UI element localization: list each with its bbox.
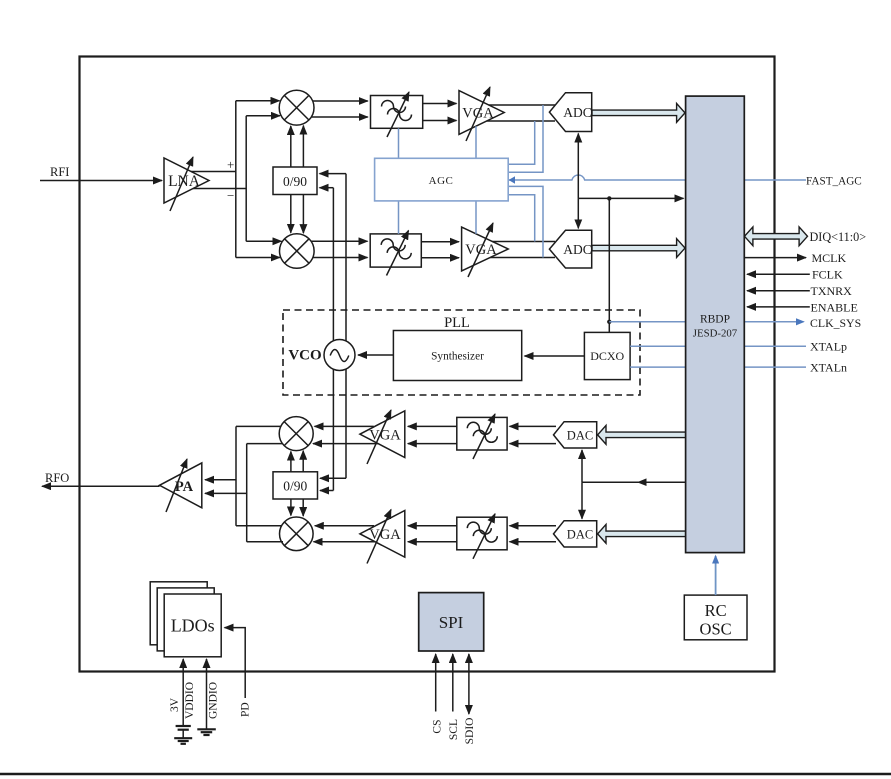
svg-text:LDOs: LDOs bbox=[171, 616, 215, 636]
wire DAC junction to RBDP bbox=[582, 481, 685, 483]
wire CS pin bbox=[435, 654, 437, 712]
oscillator RC OSC bbox=[684, 595, 747, 640]
svg-text:GNDIO: GNDIO bbox=[207, 682, 219, 719]
wire TX 0/90 LO up left bbox=[290, 452, 292, 472]
wire RX vertical bus B bbox=[245, 116, 247, 242]
svg-text:CS: CS bbox=[431, 720, 443, 734]
wire E to TX 0/90 bbox=[320, 490, 333, 492]
wire RX vertical bus A bbox=[235, 101, 237, 258]
mixer M1 bbox=[279, 90, 314, 125]
wire F to RX 0/90 bbox=[320, 173, 347, 175]
svg-text:VCO: VCO bbox=[288, 348, 321, 364]
wire DAC2 to filter4 top bbox=[510, 525, 557, 527]
wire TX vertical bus D bbox=[246, 444, 248, 542]
wire AGC tap ADC2 lower rail bbox=[508, 186, 543, 257]
mixer M3 bbox=[279, 417, 313, 451]
ground below battery bbox=[174, 738, 192, 744]
filter F2 bbox=[370, 231, 421, 276]
battery 3V symbol bbox=[176, 726, 191, 738]
wire M3 out bottom to D bbox=[247, 443, 283, 445]
svg-text:VGA: VGA bbox=[369, 427, 401, 443]
svg-text:3V: 3V bbox=[169, 697, 181, 712]
wire A to mixer M2 bbox=[236, 257, 280, 259]
svg-text:ADC: ADC bbox=[563, 105, 592, 120]
svg-text:Synthesizer: Synthesizer bbox=[431, 351, 484, 363]
svg-text:OSC: OSC bbox=[700, 620, 732, 639]
wire LNA out minus bbox=[193, 188, 246, 190]
wire AGC tap VGA2 bbox=[475, 201, 477, 234]
wire 0/90 LO up left bbox=[290, 126, 292, 167]
wire DAC2 to filter4 bottom bbox=[510, 541, 557, 543]
wire DAC1 to filter3 bottom bbox=[510, 443, 557, 445]
wire XTALp bbox=[630, 345, 806, 347]
wire SCL pin bbox=[452, 654, 454, 712]
wire V1 to ADC1 top bbox=[489, 104, 555, 106]
wire V1 to ADC1 bottom bbox=[487, 120, 555, 122]
adc ADC2 bbox=[549, 230, 591, 268]
wire TX 0/90 LO up right bbox=[302, 451, 304, 472]
wire E to RX 0/90 bbox=[320, 187, 334, 189]
bus DIQ bidirectional bbox=[745, 227, 808, 246]
wire GNDIO pin bbox=[206, 659, 208, 729]
svg-text:ENABLE: ENABLE bbox=[811, 300, 858, 314]
amplifier VGA V2 bbox=[462, 223, 509, 277]
oscillator VCO bbox=[288, 340, 355, 371]
svg-text:RFI: RFI bbox=[50, 165, 69, 179]
wire 0/90 LO up right bbox=[302, 126, 304, 167]
wire 0/90 LO down left bbox=[290, 195, 292, 233]
filter F3 bbox=[457, 414, 507, 459]
mixer M2 bbox=[280, 234, 315, 269]
svg-text:PLL: PLL bbox=[444, 315, 470, 331]
svg-text:RFO: RFO bbox=[45, 471, 69, 485]
wire FCLK bbox=[747, 273, 810, 275]
svg-text:+: + bbox=[227, 157, 234, 172]
wire filter4 to VGA4 bottom bbox=[408, 541, 457, 543]
wire ADC interconnect up bbox=[577, 134, 579, 199]
wire PD to LDOs bbox=[225, 628, 246, 698]
wire A to mixer M1 bbox=[236, 100, 280, 102]
wire ADC interconnect down bbox=[577, 198, 579, 228]
wire DAC interconnect down bbox=[581, 482, 583, 519]
wire M4 out top to C bbox=[236, 525, 282, 527]
wire B to mixer M1 bbox=[246, 115, 280, 117]
wire AGC tap filter2 bbox=[398, 201, 400, 234]
wire TX vertical bus C bbox=[235, 426, 237, 525]
wire VGA3 to M3 bottom bbox=[313, 443, 379, 445]
node FAST_AGC arrowhead bbox=[509, 176, 515, 184]
wire junction to DCXO bbox=[608, 198, 610, 332]
wire C to PA bbox=[205, 479, 236, 481]
wire V2 to ADC2 bottom bbox=[490, 257, 555, 259]
wire F to TX 0/90 bbox=[320, 477, 346, 479]
amplifier LNA bbox=[164, 157, 209, 211]
wire M4 out bottom to D bbox=[247, 541, 283, 543]
wire VGA3 to M3 top bbox=[315, 425, 374, 427]
mixer M4 bbox=[280, 517, 314, 551]
wire CLK_SYS bbox=[609, 321, 803, 323]
wire AGC tap ADC1 lower rail bbox=[508, 121, 535, 164]
wire VGA4 to M4 top bbox=[315, 525, 374, 527]
wire F2 to VGA V2 top bbox=[421, 241, 459, 243]
TX quadrature box 0/90 bbox=[273, 472, 318, 499]
regulator LDOs front bbox=[164, 594, 221, 657]
svg-text:DCXO: DCXO bbox=[590, 349, 624, 363]
svg-text:AGC: AGC bbox=[429, 175, 454, 187]
wire filter4 to VGA4 top bbox=[408, 525, 457, 527]
wire DAC interconnect up bbox=[581, 450, 583, 482]
dac DAC2 bbox=[554, 521, 597, 547]
svg-text:DIQ<11:0>: DIQ<11:0> bbox=[810, 230, 867, 244]
wire 0/90 LO down right bbox=[302, 195, 304, 234]
wire filter3 to VGA3 top bbox=[408, 425, 457, 427]
wire LO vertical outer F bbox=[345, 174, 347, 479]
svg-text:RC: RC bbox=[705, 601, 727, 620]
svg-text:0/90: 0/90 bbox=[283, 174, 307, 189]
wire VGA4 to M4 bottom bbox=[314, 541, 379, 543]
wire RC OSC to RBDP bbox=[715, 556, 717, 595]
bus RBDP to DAC2 bbox=[598, 524, 686, 543]
svg-text:FAST_AGC: FAST_AGC bbox=[806, 175, 862, 187]
svg-text:XTALn: XTALn bbox=[810, 361, 847, 375]
wire Synthesizer to VCO bbox=[358, 354, 393, 356]
wire SDIO pin down bbox=[468, 683, 470, 714]
svg-text:JESD-207: JESD-207 bbox=[693, 328, 738, 340]
svg-text:TXNRX: TXNRX bbox=[811, 284, 853, 298]
svg-text:SCL: SCL bbox=[448, 719, 460, 740]
regulator LDOs stack back bbox=[150, 582, 207, 645]
amplifier VGA V4 bbox=[360, 510, 405, 564]
svg-text:0/90: 0/90 bbox=[283, 478, 307, 493]
wire 3V VDDIO pin bbox=[182, 659, 184, 725]
ground GNDIO bbox=[197, 729, 216, 735]
svg-text:CLK_SYS: CLK_SYS bbox=[810, 316, 861, 330]
amplifier VGA V3 bbox=[360, 410, 405, 464]
wire RFO output bbox=[42, 485, 160, 487]
block Synthesizer bbox=[393, 331, 521, 381]
bus ADC2 to RBDP bbox=[592, 239, 685, 258]
wire AGC tap ADC1 upper rail bbox=[508, 105, 543, 172]
wire F2 to VGA V2 bottom bbox=[421, 257, 459, 259]
wire M2 to filter F2 top bbox=[311, 240, 367, 242]
wire TX 0/90 LO down left bbox=[290, 499, 292, 516]
svg-text:XTALp: XTALp bbox=[810, 340, 847, 354]
wire AGC tap VGA1 bbox=[475, 126, 477, 158]
wire XTALn bbox=[630, 366, 806, 368]
RX quadrature box 0/90 bbox=[273, 167, 317, 195]
node DAC feed arrowhead bbox=[637, 478, 647, 486]
svg-text:−: − bbox=[227, 188, 234, 203]
svg-text:VGA: VGA bbox=[369, 527, 401, 543]
filter F4 bbox=[457, 514, 507, 559]
svg-text:DAC: DAC bbox=[567, 527, 593, 541]
svg-text:SDIO: SDIO bbox=[464, 718, 476, 745]
svg-text:ADC: ADC bbox=[563, 242, 592, 257]
wire LNA out plus bbox=[191, 171, 236, 173]
amplifier VGA V1 bbox=[459, 87, 504, 141]
node junction dot 1 bbox=[607, 196, 611, 200]
svg-text:VDDIO: VDDIO bbox=[184, 682, 196, 719]
block AGC U2 bbox=[375, 158, 509, 201]
dac DAC1 bbox=[554, 422, 597, 448]
filter F1 bbox=[371, 92, 423, 137]
wire M1 to filter F1 top bbox=[313, 100, 368, 102]
amplifier PA bbox=[160, 459, 202, 512]
svg-text:FCLK: FCLK bbox=[812, 268, 843, 282]
block SPI bbox=[419, 593, 484, 651]
wire TX 0/90 LO down right bbox=[302, 499, 304, 516]
wire TXNRX bbox=[747, 290, 810, 292]
wire LO vertical inner E bbox=[332, 188, 334, 491]
wire M3 out top to C bbox=[236, 425, 282, 427]
wire MCLK bbox=[745, 257, 807, 259]
bus RBDP to DAC1 bbox=[598, 425, 686, 444]
wire DCXO to Synthesizer bbox=[525, 355, 585, 357]
block RBDP JESD-207 bbox=[686, 96, 745, 552]
wire F1 to VGA V1 top bbox=[423, 103, 457, 105]
wire filter3 to VGA3 bottom bbox=[408, 443, 457, 445]
svg-text:SPI: SPI bbox=[439, 613, 464, 632]
bus ADC1 to RBDP bbox=[592, 103, 685, 122]
svg-text:RBDP: RBDP bbox=[700, 314, 730, 326]
wire FAST_AGC with hop bbox=[509, 175, 806, 180]
bottom separator rule bbox=[0, 773, 891, 775]
wire V2 to ADC2 top bbox=[492, 241, 555, 243]
outer chip border bbox=[80, 57, 775, 672]
wire ADC junction to RBDP bbox=[578, 197, 683, 199]
svg-text:DAC: DAC bbox=[567, 428, 593, 442]
wire SDIO pin up bbox=[468, 654, 470, 683]
wire M2 to filter F2 bottom bbox=[313, 257, 368, 259]
PLL dashed boundary bbox=[283, 310, 640, 395]
block DCXO bbox=[584, 332, 630, 379]
wire AGC tap ADC2 upper rail bbox=[508, 195, 535, 242]
wire ENABLE bbox=[747, 306, 810, 308]
adc ADC1 bbox=[549, 93, 591, 132]
svg-text:MCLK: MCLK bbox=[812, 251, 847, 265]
node junction dot 2 bbox=[607, 320, 611, 324]
regulator LDOs stack middle bbox=[157, 588, 214, 651]
wire RFI input bbox=[40, 180, 162, 182]
wire D to PA bbox=[205, 492, 247, 494]
wire DAC1 to filter3 top bbox=[510, 425, 557, 427]
wire F1 to VGA V1 bottom bbox=[423, 120, 457, 122]
wire AGC tap filter1 bbox=[398, 128, 400, 158]
svg-text:PD: PD bbox=[240, 702, 252, 717]
wire M1 to filter F1 bottom bbox=[312, 116, 368, 118]
wire B to mixer M2 bbox=[246, 240, 281, 242]
